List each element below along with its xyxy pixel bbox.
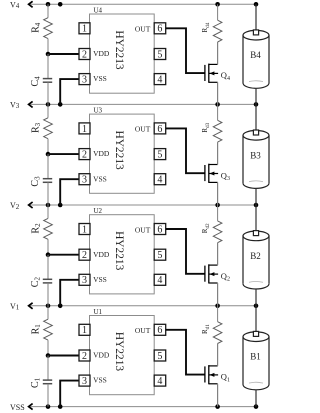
wire node to pin 2 (VDD) stage 1 (48, 355, 79, 357)
junction V1 / bleed resistor column (215, 304, 220, 309)
junction V2 / R column (46, 203, 51, 208)
resistor R1 (44, 306, 53, 356)
label R4 (31, 22, 43, 33)
arrow V3 (29, 101, 33, 107)
wire node to pin 2 (VDD) stage 2 (48, 254, 79, 256)
wire VSS pin 3 to rail stage 1 (60, 381, 79, 407)
pin 3 of U2 (79, 274, 90, 286)
pin 4 of U3 (154, 174, 166, 186)
label OUT pin 6 U1 (135, 326, 151, 335)
svg-text:5: 5 (157, 49, 162, 60)
label Q3 (221, 170, 230, 182)
svg-text:OUT: OUT (135, 125, 151, 134)
label VSS pin 3 U1 (93, 376, 107, 385)
svg-text:VSS: VSS (93, 174, 107, 183)
svg-text:5: 5 (157, 250, 162, 261)
pin 2 of U3 (79, 149, 90, 161)
svg-text:HY2213: HY2213 (113, 332, 125, 372)
svg-text:OUT: OUT (135, 225, 151, 234)
battery B2 (243, 231, 269, 289)
stage 2 (30, 205, 269, 306)
label B1 (250, 352, 261, 362)
junction V1 / VSS-wire column (58, 304, 63, 309)
pin 1 of U1 (79, 324, 90, 336)
label VDD pin 2 U2 (93, 250, 110, 259)
wire battery B1 top (255, 306, 257, 331)
wire node to pin 2 (VDD) stage 3 (48, 153, 79, 155)
label U4 (94, 7, 103, 15)
stage 4 (30, 4, 269, 104)
label Q4 (221, 70, 230, 82)
label R3 (31, 122, 43, 133)
svg-text:U1: U1 (94, 308, 103, 316)
svg-text:6: 6 (157, 224, 162, 235)
label OUT pin 6 U2 (135, 225, 151, 234)
junction V4 / battery column (254, 2, 259, 7)
net VSS rail (29, 406, 257, 408)
label U1 (94, 308, 103, 316)
svg-text:2: 2 (82, 150, 87, 161)
wire OUT to gate of Q3 (166, 128, 205, 173)
wire battery B3 top (255, 104, 257, 129)
label Q2 (221, 271, 230, 283)
svg-text:2: 2 (82, 250, 87, 261)
label HY2213 (U1) (113, 332, 125, 372)
resistor R2 (44, 205, 53, 255)
wire battery B1 bottom (255, 390, 257, 407)
svg-text:HY2213: HY2213 (113, 30, 125, 70)
net V4 rail (29, 3, 257, 5)
net V3 rail (29, 103, 257, 105)
svg-text:U4: U4 (94, 7, 103, 15)
pin 1 of U4 (79, 23, 90, 35)
transistor Q1 (N-MOSFET) (205, 365, 218, 384)
label HY2213 (U4) (113, 30, 125, 70)
svg-text:B4: B4 (250, 50, 261, 60)
arrow V1 (29, 303, 33, 309)
wire VSS pin 3 to rail stage 4 (60, 79, 79, 104)
label R1 (31, 324, 43, 335)
junction V3 / VSS-wire column (58, 102, 63, 107)
svg-text:4: 4 (157, 175, 162, 186)
svg-text:VDD: VDD (93, 49, 110, 58)
label VDD pin 2 U1 (93, 351, 110, 360)
junction V1 / battery column (254, 304, 259, 309)
svg-text:B3: B3 (250, 150, 261, 160)
label C1 (30, 377, 42, 388)
svg-text:5: 5 (157, 150, 162, 161)
junction V3 / battery column (254, 102, 259, 107)
IC U4 HY2213 body (90, 14, 155, 93)
label VSS (10, 403, 25, 412)
svg-text:OUT: OUT (135, 326, 151, 335)
pin 6 of U4 (154, 23, 166, 35)
wire VSS pin 3 to rail stage 2 (60, 280, 79, 306)
junction V3 / R column (46, 102, 51, 107)
arrow VSS (29, 404, 33, 410)
transistor Q3 (N-MOSFET) (205, 164, 218, 183)
label VDD pin 2 U3 (93, 149, 110, 158)
wire source of Q1 to rail (217, 384, 219, 407)
svg-text:6: 6 (157, 24, 162, 35)
svg-text:V4: V4 (10, 1, 20, 11)
svg-text:3: 3 (82, 275, 87, 286)
transistor Q2 (N-MOSFET) (205, 264, 218, 283)
label R2 (31, 223, 43, 234)
wire OUT to gate of Q1 (166, 330, 205, 375)
junction VSS / VSS-wire column (58, 404, 63, 409)
svg-text:6: 6 (157, 124, 162, 135)
svg-text:U2: U2 (94, 207, 103, 215)
capacitor C1 (43, 356, 52, 407)
junction V3 / bleed resistor column (215, 102, 220, 107)
pin 6 of U3 (154, 123, 166, 135)
wire node to pin 2 (VDD) stage 4 (48, 53, 79, 55)
junction V1 / R column (46, 304, 51, 309)
label C2 (30, 277, 42, 288)
junction VSS / R column (46, 404, 51, 409)
battery B1 (243, 331, 269, 389)
svg-text:OUT: OUT (135, 25, 151, 34)
svg-text:HY2213: HY2213 (113, 231, 125, 271)
label V4 (10, 1, 20, 11)
junction VSS / battery column (254, 404, 259, 409)
pin 3 of U4 (79, 74, 90, 86)
label OUT pin 6 U4 (135, 25, 151, 34)
label Rd4 (201, 22, 211, 32)
wire VSS pin 3 to rail stage 3 (60, 179, 79, 205)
svg-text:U3: U3 (94, 107, 103, 115)
label V3 (10, 101, 20, 111)
pin 4 of U1 (154, 375, 166, 387)
svg-text:B2: B2 (250, 251, 261, 261)
arrow V2 (29, 202, 33, 208)
label U2 (94, 207, 103, 215)
node VDD junction stage 1 (46, 353, 51, 358)
stage 1 (30, 306, 269, 407)
pin 5 of U4 (154, 49, 166, 61)
label B2 (250, 251, 261, 261)
svg-text:3: 3 (82, 376, 87, 387)
capacitor C2 (43, 255, 52, 306)
battery B4 (243, 30, 269, 88)
svg-text:3: 3 (82, 75, 87, 86)
pin 1 of U2 (79, 224, 90, 236)
transistor Q4 (N-MOSFET) (205, 64, 218, 83)
net V2 rail (29, 204, 257, 206)
junction V2 / VSS-wire column (58, 203, 63, 208)
svg-text:VSS: VSS (93, 74, 107, 83)
node VDD junction stage 2 (46, 252, 51, 257)
pin 4 of U2 (154, 274, 166, 286)
IC U3 HY2213 body (90, 114, 155, 193)
wire battery B2 top (255, 205, 257, 230)
svg-text:VDD: VDD (93, 250, 110, 259)
node VDD junction stage 3 (46, 152, 51, 157)
svg-text:1: 1 (82, 24, 87, 35)
label U3 (94, 107, 103, 115)
label HY2213 (U3) (113, 130, 125, 170)
junction V4 / VSS-wire column (58, 2, 63, 7)
wire battery B4 bottom (255, 88, 257, 104)
svg-text:V2: V2 (10, 201, 20, 211)
label VSS pin 3 U2 (93, 275, 107, 284)
IC U2 HY2213 body (90, 215, 155, 294)
svg-text:HY2213: HY2213 (113, 130, 125, 170)
pin 4 of U4 (154, 74, 166, 86)
pin 3 of U1 (79, 375, 90, 387)
pin 5 of U3 (154, 149, 166, 161)
label VDD pin 2 U4 (93, 49, 110, 58)
battery B3 (243, 130, 269, 188)
wire source of Q4 to rail (217, 82, 219, 104)
capacitor C4 (43, 54, 52, 104)
resistor R3 (44, 104, 53, 154)
svg-text:3: 3 (82, 175, 87, 186)
pin 1 of U3 (79, 123, 90, 135)
pin 2 of U1 (79, 350, 90, 362)
net V1 rail (29, 305, 257, 307)
resistor Rd3 (213, 104, 222, 164)
label V2 (10, 201, 20, 211)
svg-text:V3: V3 (10, 101, 20, 111)
svg-text:VDD: VDD (93, 351, 110, 360)
pin 5 of U1 (154, 350, 166, 362)
wire source of Q3 to rail (217, 182, 219, 205)
label HY2213 (U2) (113, 231, 125, 271)
junction V4 / bleed resistor column (215, 2, 220, 7)
svg-text:VSS: VSS (93, 376, 107, 385)
label B3 (250, 150, 261, 160)
capacitor C3 (43, 154, 52, 205)
svg-text:2: 2 (82, 351, 87, 362)
junction V2 / bleed resistor column (215, 203, 220, 208)
pin 6 of U1 (154, 324, 166, 336)
pin 5 of U2 (154, 249, 166, 261)
label Rd1 (201, 324, 211, 334)
pin 6 of U2 (154, 224, 166, 236)
junction VSS / bleed resistor column (215, 404, 220, 409)
svg-text:VDD: VDD (93, 149, 110, 158)
label Rd2 (201, 223, 211, 233)
wire battery B4 top (255, 4, 257, 29)
svg-text:1: 1 (82, 325, 87, 336)
svg-text:4: 4 (157, 376, 162, 387)
svg-text:2: 2 (82, 49, 87, 60)
label Rd3 (201, 122, 211, 132)
stage 3 (30, 104, 269, 205)
wire OUT to gate of Q4 (166, 28, 205, 73)
wire source of Q2 to rail (217, 283, 219, 306)
svg-text:1: 1 (82, 124, 87, 135)
wire battery B2 bottom (255, 289, 257, 306)
svg-text:1: 1 (82, 224, 87, 235)
label VSS pin 3 U3 (93, 174, 107, 183)
svg-text:4: 4 (157, 75, 162, 86)
label C4 (30, 76, 42, 87)
node VDD junction stage 4 (46, 52, 51, 57)
label C3 (30, 176, 42, 187)
junction V4 / R column (46, 2, 51, 7)
wire battery B3 bottom (255, 188, 257, 205)
wire OUT to gate of Q2 (166, 229, 205, 274)
resistor Rd1 (213, 306, 222, 366)
label B4 (250, 50, 261, 60)
resistor Rd2 (213, 205, 222, 265)
pin 2 of U4 (79, 49, 90, 61)
svg-text:B1: B1 (250, 352, 261, 362)
resistor R4 (44, 4, 53, 54)
IC U1 HY2213 body (90, 316, 155, 395)
svg-text:4: 4 (157, 275, 162, 286)
svg-text:VSS: VSS (93, 275, 107, 284)
label OUT pin 6 U3 (135, 125, 151, 134)
junction V2 / battery column (254, 203, 259, 208)
resistor Rd4 (213, 4, 222, 64)
label V1 (10, 302, 20, 312)
svg-text:VSS: VSS (10, 403, 25, 412)
label Q1 (221, 372, 230, 384)
svg-text:V1: V1 (10, 302, 20, 312)
pin 2 of U2 (79, 249, 90, 261)
svg-text:5: 5 (157, 351, 162, 362)
label VSS pin 3 U4 (93, 74, 107, 83)
svg-text:6: 6 (157, 325, 162, 336)
arrow V4 (29, 1, 33, 7)
pin 3 of U3 (79, 174, 90, 186)
